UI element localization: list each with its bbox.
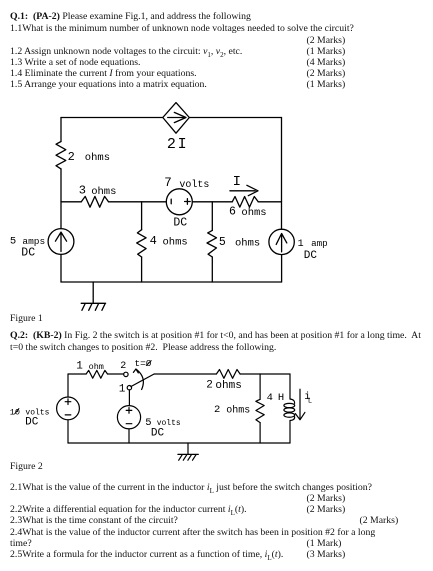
label 3 ohms (79, 184, 117, 199)
label 5 amps DC (10, 236, 45, 260)
current direction arrow I (230, 185, 258, 195)
svg-text:ohms: ohms (163, 237, 188, 249)
resistor R 2 ohms (56, 142, 66, 169)
wire left vertical upper (Fig.2) (67, 374, 69, 397)
label 2 ohms (68, 150, 110, 164)
resistor R 1 ohm (86, 370, 107, 378)
wire 4-ohm branch upper (141, 202, 143, 230)
voltage source 10 volts DC (57, 397, 80, 420)
ground (Fig.1) (81, 282, 105, 310)
label 2 (terminal) (120, 361, 126, 372)
wire bottom (Fig.1) (61, 281, 282, 283)
svg-text:3: 3 (79, 184, 86, 198)
svg-text:DC: DC (21, 246, 35, 259)
svg-text:ohms: ohms (226, 404, 250, 416)
label t=0 (134, 358, 151, 369)
voltage source 7 volts DC (166, 189, 192, 215)
wire switch terminal 1 to 5V source (128, 390, 130, 406)
svg-text:2: 2 (206, 379, 213, 391)
wire 5-ohm branch lower (211, 257, 213, 282)
current arrow iL (295, 389, 305, 420)
wire middle row segment 1 (61, 201, 81, 203)
switch arm (131, 374, 154, 387)
label 2I (167, 136, 187, 153)
wire right vertical upper (281, 118, 283, 230)
svg-text:2: 2 (167, 136, 176, 153)
svg-text:amps: amps (22, 236, 45, 247)
svg-text:volts: volts (179, 179, 209, 191)
svg-text:7: 7 (164, 176, 172, 190)
wire left vertical lower (60, 254, 62, 282)
resistor R 2 ohms (series) (216, 370, 240, 379)
svg-text:ohms: ohms (85, 152, 110, 164)
svg-text:2: 2 (68, 150, 75, 164)
label I (current) (233, 174, 241, 190)
svg-text:t=0: t=0 (134, 358, 151, 369)
ground (Fig.2) (178, 443, 198, 460)
wire inductor branch lower (289, 421, 291, 444)
svg-text:1: 1 (298, 239, 304, 250)
svg-text:amp: amp (311, 238, 328, 249)
wire bottom (Fig.2) (68, 442, 290, 444)
svg-text:DC: DC (304, 250, 318, 262)
wire 5-ohm branch upper (211, 202, 213, 231)
wire from switch to 2-ohm resistor (154, 373, 216, 375)
svg-text:4: 4 (267, 392, 273, 404)
wire 4-ohm branch lower (141, 257, 143, 282)
label 4 H (267, 392, 285, 404)
wire middle row segment 2 (109, 201, 167, 203)
wire top-left (Fig.1) (61, 117, 163, 119)
wire middle row segment 4 (258, 201, 281, 203)
label DC (7V source) (173, 216, 187, 229)
voltage source 5 volts DC (117, 406, 140, 429)
label iL (304, 391, 312, 406)
label 1 amp DC (298, 238, 328, 262)
wire left vertical upper (60, 118, 62, 142)
label 4 ohms (150, 234, 188, 248)
wire 5V source to bottom (128, 429, 130, 443)
label 1 ohm (76, 360, 104, 372)
current source 1 amp DC (269, 229, 294, 254)
wire left vertical lower (Fig.2) (67, 420, 69, 443)
svg-text:ohms: ohms (241, 207, 266, 219)
resistor R 3 ohms (81, 196, 108, 207)
svg-text:5: 5 (10, 236, 16, 248)
svg-text:2: 2 (214, 404, 220, 416)
svg-text:DC: DC (25, 417, 39, 429)
resistor R 6 ohms (232, 197, 258, 208)
wire shunt resistor branch upper (259, 374, 261, 399)
svg-text:DC: DC (151, 428, 165, 440)
switch terminal 1 (127, 386, 131, 390)
label 6 ohms (229, 206, 267, 220)
label 2 ohms (shunt) (214, 404, 250, 417)
wire right vertical lower (281, 255, 283, 282)
label 1 (terminal) (119, 384, 126, 396)
svg-text:ohms: ohms (215, 380, 241, 392)
label 7 volts (164, 176, 209, 191)
wire to switch terminal 2 (108, 373, 124, 375)
svg-text:2: 2 (120, 361, 126, 372)
wire top-left (Fig.2) (68, 373, 86, 375)
switch terminal 2 (124, 372, 128, 376)
wire inductor branch upper (289, 374, 291, 399)
svg-text:I: I (233, 174, 241, 190)
svg-text:ohms: ohms (91, 186, 116, 198)
svg-text:volts: volts (157, 419, 181, 428)
svg-text:I: I (178, 136, 187, 153)
svg-text:ohm: ohm (89, 362, 104, 372)
svg-text:H: H (278, 392, 284, 404)
switch motion arc t=0 (133, 369, 143, 390)
svg-text:1: 1 (119, 384, 126, 396)
wire left vertical middle (60, 169, 62, 229)
svg-text:4: 4 (150, 234, 157, 248)
label 5 volts DC (145, 417, 181, 440)
label 5 ohms (219, 236, 260, 250)
svg-text:1: 1 (76, 360, 83, 372)
label 10 volts DC (10, 408, 50, 429)
current source 5 amps DC (48, 229, 74, 255)
svg-text:6: 6 (229, 206, 236, 219)
wire shunt resistor branch lower (259, 423, 261, 443)
inductor L 4 H (284, 399, 295, 421)
svg-text:5: 5 (219, 236, 226, 249)
wire middle row segment 3 (192, 201, 232, 203)
dependent current source 2I (diamond) (163, 103, 190, 134)
wire 2-ohm resistor to right corner (240, 373, 290, 375)
svg-text:ohms: ohms (235, 238, 260, 250)
resistor R 2 ohms (shunt) (256, 399, 264, 422)
resistor R 4 ohms (137, 230, 146, 257)
resistor R 5 ohms (207, 230, 217, 257)
wire top-right (Fig.1) (189, 117, 281, 119)
label 2 ohms (series) (206, 379, 242, 392)
svg-text:DC: DC (173, 216, 187, 229)
svg-text:L: L (308, 397, 312, 405)
